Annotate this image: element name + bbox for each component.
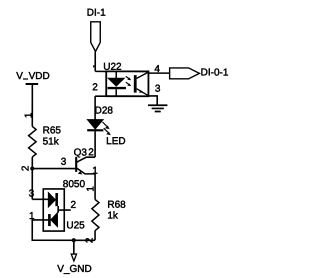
diode D28 label [95,105,114,116]
wire to V_GND symbol [73,240,75,254]
pin number 2 (R68, rotated) [85,237,96,243]
svg-text:R65: R65 [43,125,62,136]
power V_GND arrow symbol [71,254,76,261]
wire DI-1 to U22 pin 1 [94,51,96,71]
LED D28 [87,120,103,132]
pin number 2 (Q3 collector) [88,147,94,158]
optocoupler U22 label [103,62,122,73]
connector DI-1 label [87,8,106,19]
wire R65 to junction [31,157,33,169]
U25 pin 2 stub [58,209,71,211]
resistor R68 [92,199,99,230]
svg-text:DI-0-1: DI-0-1 [201,67,229,78]
wire base to Q3 [32,168,76,170]
power V_VDD bar symbol [26,83,38,85]
svg-text:VDD: VDD [29,71,50,82]
pin number 3 (Q3 base) [61,157,67,168]
pin number 3 (U25) [29,188,35,199]
wire U25 pin 3 [32,198,48,200]
U25 center link [57,206,59,213]
svg-text:2: 2 [88,147,94,158]
pin number 1 (R65, rotated) [24,112,35,118]
power V_VDD label [16,71,50,82]
pin number 1 (U22 pin 1, rotated) [93,66,96,68]
power V_GND label [57,264,91,275]
transistor Q3 label [74,147,88,158]
transistor Q3 value 8050 [63,179,86,190]
pin number 1 (Q3 emitter) [92,166,98,177]
U25 bottom diode [48,213,57,227]
svg-text:D28: D28 [95,105,114,116]
pin number 2 (R65, rotated) [20,165,31,171]
svg-text:V: V [16,71,23,82]
svg-text:1: 1 [24,112,35,118]
U22 light arrows [126,76,131,86]
U25 label [66,220,85,231]
resistor R68 label [107,200,126,222]
wire U22 pin 4 to DI-0-1 [148,72,169,74]
wire V_VDD to R65 [31,84,33,126]
wire left rail to U25 [31,169,33,200]
resistor R65 label [43,125,62,147]
pin number 3 (U22) [155,84,161,95]
node junction base [30,166,34,170]
svg-text:2: 2 [92,82,98,93]
U22 phototransistor [134,72,148,95]
svg-text:1k: 1k [107,210,119,221]
svg-text:1: 1 [85,186,96,192]
pin number 1 (U25) [29,211,35,222]
wire Q3 emitter to R68 [94,174,96,200]
pin number 2 (U22) [92,82,98,93]
LED text label [106,136,125,147]
connector DI-1 [91,22,101,52]
svg-text:R68: R68 [107,200,126,211]
svg-text:DI-1: DI-1 [87,8,106,19]
D28 light arrows [103,122,111,135]
svg-text:LED: LED [106,136,125,147]
wire U22 pin 2 to D28 [94,96,96,119]
svg-text:3: 3 [29,188,35,199]
svg-text:V_GND: V_GND [57,264,91,275]
resistor R65 [29,126,37,157]
svg-text:2: 2 [71,200,77,211]
pin number 1 (R68, rotated) [85,186,96,192]
ground (earth) symbol [148,105,167,111]
connector DI-0-1 label [201,67,229,78]
svg-text:Q3: Q3 [74,147,88,158]
U22 internal LED [108,71,126,96]
wire U25 pin 1 to bottom rail [32,220,95,240]
pin number 4 (U22) [154,64,160,75]
U22 pin 2 stub [95,95,106,97]
svg-text:3: 3 [155,84,161,95]
transistor Q3 [76,157,95,175]
connector DI-0-1 [170,68,200,79]
svg-text:51k: 51k [43,137,60,148]
wire D28 to Q3 collector [94,131,96,157]
optocoupler U22 box [106,71,148,96]
svg-text:3: 3 [61,157,67,168]
pin number 2 (U25) [71,200,77,211]
wire U22 pin 3 to ground [148,96,157,105]
node junction V_GND [72,238,76,242]
U22 pin 1 stub [95,70,106,72]
svg-text:8050: 8050 [63,179,86,190]
U25 top diode [48,193,58,207]
diode pack U25 box [43,189,64,231]
svg-text:2: 2 [20,165,31,171]
svg-text:U25: U25 [66,220,85,231]
wire R68 to bottom rail [94,231,96,241]
